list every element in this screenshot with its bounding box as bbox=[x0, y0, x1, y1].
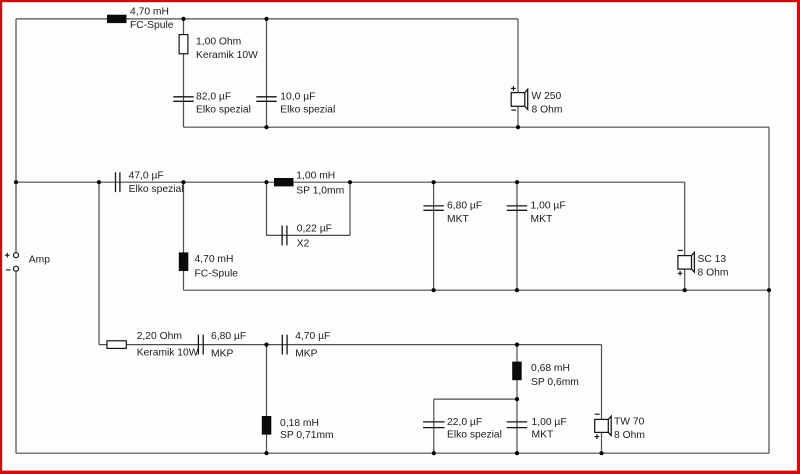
junction tweeter rail / 0,18mH branch bbox=[264, 343, 268, 347]
junction mid bottom rail / right rail bbox=[767, 288, 771, 292]
capacitor C3 47,0 uF Elko spezial (mid highpass) bbox=[116, 171, 184, 195]
junction tweeter rail / 0,68mH branch bbox=[515, 343, 519, 347]
wire: vertical below TW70 speaker bbox=[601, 432, 603, 453]
inductor L5 0,18 mH SP 0,71mm bbox=[262, 416, 334, 441]
svg-text:Elko spezial: Elko spezial bbox=[129, 184, 184, 195]
svg-text:10,0 µF: 10,0 µF bbox=[280, 92, 315, 103]
svg-text:6,80 µF: 6,80 µF bbox=[211, 331, 246, 342]
wire: left rail lower vertical (amp - down to return rail) bbox=[15, 271, 17, 453]
junction return rail / TW70 bbox=[599, 451, 603, 455]
junction left rail / mid rail bbox=[14, 180, 18, 184]
junction mid rail / FC-Spule branch bbox=[181, 180, 185, 184]
inductor L2 1,00 mH SP 1,0mm bbox=[274, 171, 344, 197]
speaker SC 13 8 Ohm (midrange) bbox=[678, 250, 729, 278]
svg-text:TW 70: TW 70 bbox=[614, 417, 645, 428]
svg-text:0,18 mH: 0,18 mH bbox=[280, 418, 319, 429]
red frame top border bbox=[0, 0, 800, 2]
svg-text:0,22 µF: 0,22 µF bbox=[297, 223, 332, 234]
wire: top rail horizontal (amp + to woofer section) bbox=[16, 18, 518, 20]
wire: vertical branch 22uF elko bbox=[433, 399, 435, 453]
svg-text:1,00 mH: 1,00 mH bbox=[296, 171, 335, 182]
svg-text:MKT: MKT bbox=[532, 429, 554, 440]
resistor R1 1,00 Ohm Keramik 10W bbox=[179, 35, 258, 61]
svg-text:22,0 µF: 22,0 µF bbox=[447, 417, 482, 428]
wire: midrange section bottom horizontal rail bbox=[184, 289, 770, 291]
svg-text:FC-Spule: FC-Spule bbox=[130, 20, 174, 31]
junction mid bottom rail / 6,80uF MKT bbox=[432, 288, 436, 292]
svg-text:Elko spezial: Elko spezial bbox=[447, 429, 502, 440]
wire: vertical branch FC-Spule midrange bbox=[183, 182, 185, 290]
inductor L4 0,68 mH SP 0,6mm bbox=[512, 362, 579, 388]
svg-text:4,70 mH: 4,70 mH bbox=[130, 7, 169, 18]
svg-text:SP 1,0mm: SP 1,0mm bbox=[296, 186, 344, 197]
junction mid rail / 1,00uF MKT branch bbox=[515, 180, 519, 184]
wire: vertical branch TW70 speaker bbox=[601, 345, 603, 420]
speaker W 250 8 Ohm (woofer) bbox=[511, 86, 562, 116]
svg-text:6,80 µF: 6,80 µF bbox=[447, 201, 482, 212]
resistor R2 2,20 Ohm Keramik 10W bbox=[107, 331, 199, 358]
amp label bbox=[29, 255, 50, 266]
svg-text:82,0 µF: 82,0 µF bbox=[196, 92, 231, 103]
svg-text:MKP: MKP bbox=[295, 348, 317, 359]
capacitor C2 10,0 uF Elko spezial bbox=[256, 92, 335, 116]
junction return rail / 1,00uF MKT bbox=[515, 451, 519, 455]
wire: X2 loop right vertical bbox=[349, 182, 351, 235]
inductor L1 4,70 mH FC-Spule (top rail) bbox=[107, 7, 174, 31]
svg-text:8 Ohm: 8 Ohm bbox=[614, 430, 645, 441]
svg-text:SC 13: SC 13 bbox=[698, 254, 727, 265]
wire: right rail vertical bbox=[768, 127, 770, 453]
wire: left rail upper vertical (amp + up to top rail) bbox=[15, 19, 17, 253]
wire: vertical branch R1/82uF at x=183 top section bbox=[183, 19, 185, 127]
capacitor C5 6,80 uF MKT bbox=[423, 201, 482, 225]
junction mid rail / 6,80uF MKT branch bbox=[432, 180, 436, 184]
wire: tweeter sub-rail between 0,68mH and caps bbox=[434, 398, 517, 400]
wire: vertical below SC13 speaker bbox=[684, 269, 686, 290]
wire: vertical link mid rail to tweeter rail at x=99 bbox=[98, 182, 100, 344]
junction woofer rail / W250 branch bbox=[516, 125, 520, 129]
wire: X2 capacitor loop bottom segment bbox=[267, 234, 351, 236]
wire: vertical branch 1,00uF MKT bottom bbox=[516, 399, 518, 453]
svg-text:SP 0,71mm: SP 0,71mm bbox=[280, 430, 334, 441]
svg-text:1,00 Ohm: 1,00 Ohm bbox=[196, 37, 241, 48]
wire: bottom return rail bbox=[16, 452, 769, 454]
svg-text:X2: X2 bbox=[297, 238, 310, 249]
capacitor C9 22,0 uF Elko spezial bbox=[423, 417, 502, 441]
amp terminal - (node) bbox=[6, 266, 19, 271]
junction mid bottom rail / SC13 bbox=[683, 288, 687, 292]
capacitor C10 1,00 uF MKT (tweeter shunt) bbox=[507, 417, 567, 441]
svg-text:47,0 µF: 47,0 µF bbox=[129, 171, 164, 182]
junction mid bottom rail / 1,00uF MKT bbox=[515, 288, 519, 292]
svg-text:0,68 mH: 0,68 mH bbox=[531, 363, 570, 374]
svg-text:Keramik 10W: Keramik 10W bbox=[137, 348, 199, 359]
svg-text:MKP: MKP bbox=[211, 348, 233, 359]
wire: midrange section top horizontal rail bbox=[16, 181, 685, 183]
junction mid rail / X2 loop right bbox=[348, 180, 352, 184]
wire: vertical branch 0,18mH bbox=[266, 345, 268, 454]
svg-text:MKT: MKT bbox=[447, 214, 469, 225]
amp terminal + (node) bbox=[5, 253, 19, 258]
wire: vertical branch 10uF at x=266 top section bbox=[266, 19, 268, 127]
capacitor C1 82,0 uF Elko spezial bbox=[173, 92, 251, 116]
wire: vertical branch 0,68mH bbox=[516, 345, 518, 400]
speaker TW 70 8 Ohm (tweeter) bbox=[595, 414, 645, 441]
wire: woofer section lower horizontal rail bbox=[184, 126, 770, 128]
svg-text:4,70 µF: 4,70 µF bbox=[295, 331, 330, 342]
junction mid rail / X2 loop left bbox=[264, 180, 268, 184]
junction top rail / R1 branch bbox=[181, 17, 185, 21]
svg-text:2,20 Ohm: 2,20 Ohm bbox=[137, 331, 182, 342]
capacitor C7 6,80 uF MKP bbox=[198, 331, 246, 359]
red frame left border bbox=[0, 0, 2, 474]
capacitor C4 0,22 uF X2 (parallel to L2) bbox=[282, 223, 332, 249]
junction woofer rail / 10uF branch bbox=[264, 125, 268, 129]
svg-text:1,00 µF: 1,00 µF bbox=[531, 201, 566, 212]
inductor L3 4,70 mH FC-Spule (midrange shunt) bbox=[179, 252, 238, 279]
svg-text:Elko spezial: Elko spezial bbox=[196, 104, 251, 115]
junction top rail / 10uF branch bbox=[264, 17, 268, 21]
wire: X2 loop left vertical bbox=[266, 182, 268, 235]
svg-text:4,70 mH: 4,70 mH bbox=[195, 254, 234, 265]
junction sub-rail / 1,00uF MKT bottom bbox=[515, 397, 519, 401]
red frame bottom border bbox=[0, 471, 800, 474]
red frame right border bbox=[797, 0, 800, 474]
junction return rail / 22uF bbox=[432, 451, 436, 455]
svg-text:SP 0,6mm: SP 0,6mm bbox=[531, 377, 579, 388]
svg-text:Elko spezial: Elko spezial bbox=[280, 104, 335, 115]
wire: vertical branch SC13 speaker bbox=[684, 182, 686, 255]
capacitor C8 4,70 uF MKP bbox=[282, 331, 330, 359]
wire: vertical branch 1,00uF MKT bbox=[516, 182, 518, 290]
svg-text:Amp: Amp bbox=[29, 255, 50, 266]
junction return rail / 0,18mH bbox=[264, 451, 268, 455]
wire: vertical branch W250 speaker bbox=[517, 19, 519, 93]
svg-text:8 Ohm: 8 Ohm bbox=[532, 105, 563, 116]
wire: vertical branch 6,80uF MKT bbox=[433, 182, 435, 290]
wire: vertical below W250 speaker bbox=[517, 106, 519, 127]
junction mid rail / tweeter link bbox=[97, 180, 101, 184]
svg-text:Keramik 10W: Keramik 10W bbox=[196, 50, 258, 61]
wire: tweeter section top horizontal rail bbox=[99, 344, 602, 346]
svg-text:8 Ohm: 8 Ohm bbox=[698, 268, 729, 279]
svg-text:MKT: MKT bbox=[531, 214, 553, 225]
svg-text:FC-Spule: FC-Spule bbox=[195, 268, 239, 279]
capacitor C6 1,00 uF MKT bbox=[507, 201, 566, 225]
svg-text:1,00 µF: 1,00 µF bbox=[532, 417, 567, 428]
svg-text:W 250: W 250 bbox=[532, 91, 562, 102]
